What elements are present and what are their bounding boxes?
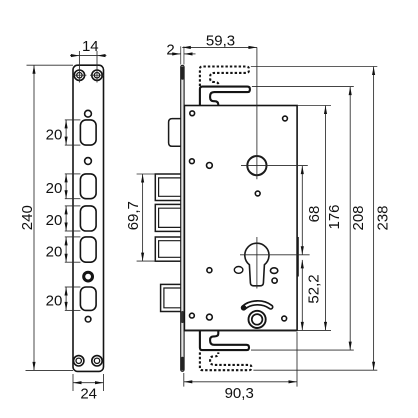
svg-text:20: 20 <box>46 126 63 143</box>
svg-text:69,7: 69,7 <box>125 201 142 230</box>
svg-text:90,3: 90,3 <box>225 385 254 402</box>
svg-text:14: 14 <box>82 38 99 55</box>
svg-text:20: 20 <box>46 243 63 260</box>
svg-text:24: 24 <box>80 385 97 402</box>
svg-text:208: 208 <box>350 205 367 230</box>
svg-text:59,3: 59,3 <box>206 33 235 50</box>
svg-text:20: 20 <box>46 180 63 197</box>
svg-text:176: 176 <box>326 204 343 229</box>
svg-text:52,2: 52,2 <box>306 274 323 303</box>
svg-text:238: 238 <box>375 205 392 230</box>
svg-text:240: 240 <box>19 205 36 230</box>
svg-text:2: 2 <box>166 41 174 58</box>
svg-text:68: 68 <box>306 206 323 223</box>
svg-text:20: 20 <box>46 212 63 229</box>
svg-text:20: 20 <box>46 293 63 310</box>
